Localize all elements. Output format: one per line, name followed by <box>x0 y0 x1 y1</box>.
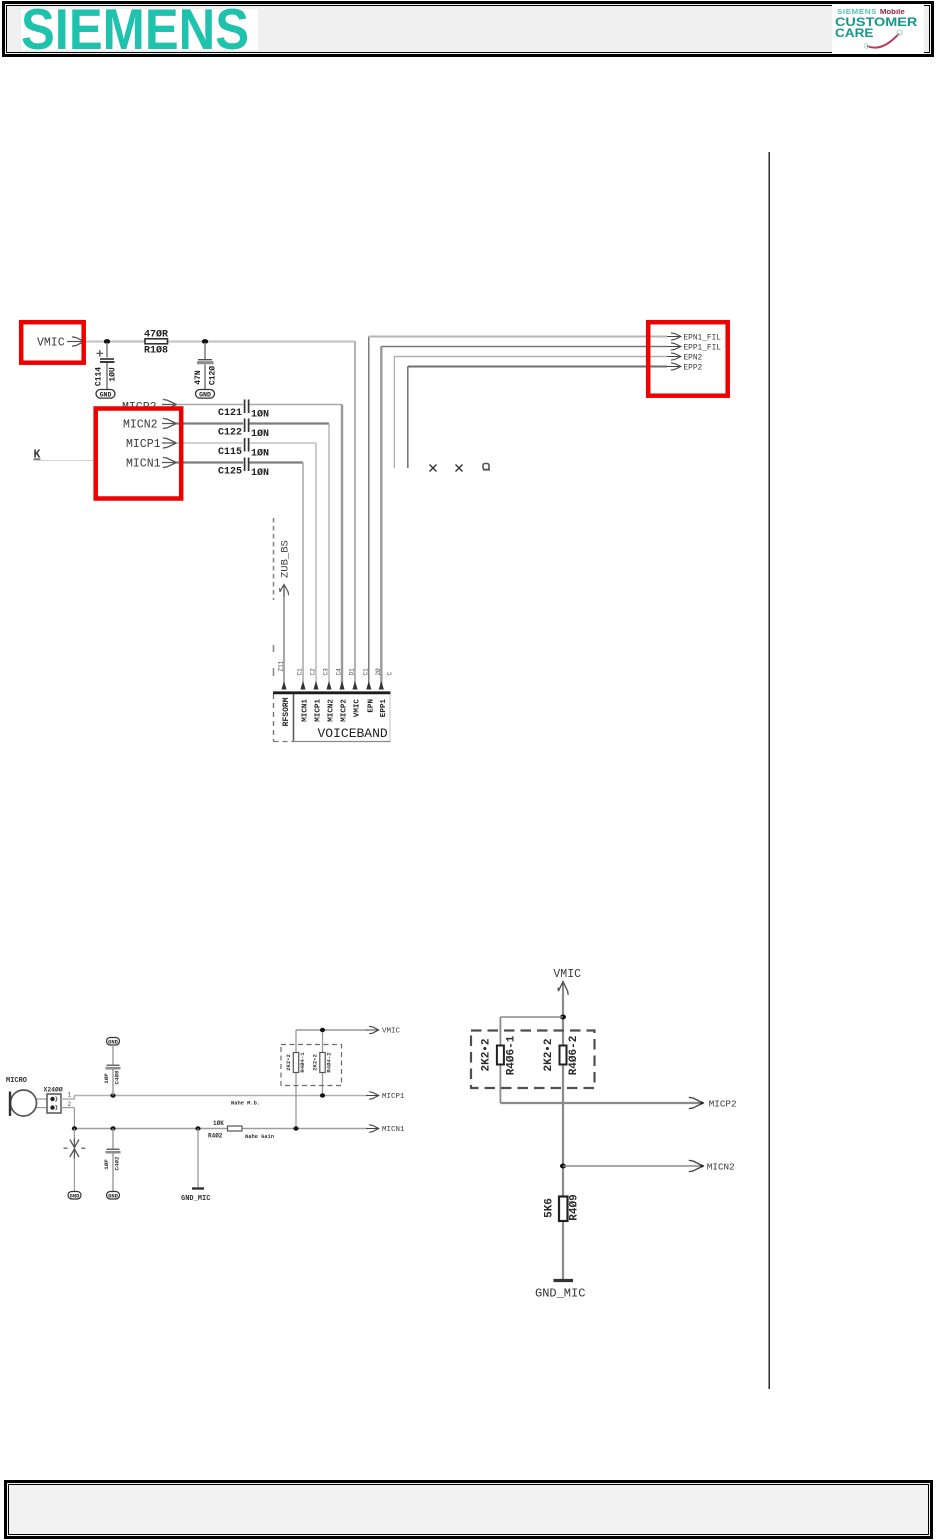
ground GND (C408 top) <box>107 1038 120 1046</box>
no-connect mark 3 <box>483 464 490 470</box>
svg-text:Z11: Z11 <box>278 660 285 671</box>
footer bar <box>4 1480 933 1539</box>
highlight red box VMIC <box>21 322 83 363</box>
svg-text:C3: C3 <box>323 668 330 676</box>
node junction VMIC/R404-2 <box>320 1028 325 1032</box>
suppressor Z400 <box>64 1129 86 1192</box>
node junction C402 <box>110 1126 115 1130</box>
wire MICP2 row (divider) <box>500 1102 701 1104</box>
svg-text:C121: C121 <box>218 408 242 419</box>
node ZUB_BS (port arrow up) <box>279 540 291 687</box>
node VMIC (input port) <box>37 336 85 349</box>
pin C partial at box edge <box>387 672 394 676</box>
svg-text:5K6: 5K6 <box>544 1198 556 1218</box>
wire MICN1 row (bottom circuit) <box>61 1108 367 1129</box>
svg-text:2Ø: 2Ø <box>375 668 382 676</box>
resistor R406-2 2K2*2 <box>543 1036 580 1076</box>
svg-text:R4Ø6-1: R4Ø6-1 <box>506 1035 518 1075</box>
svg-text:2K2•2: 2K2•2 <box>312 1053 319 1070</box>
wire mic to connector <box>37 1099 48 1108</box>
svg-text:C4Ø8: C4Ø8 <box>114 1070 121 1084</box>
node MICN2 (output port, divider) <box>689 1160 735 1172</box>
svg-text:R4Ø4-2: R4Ø4-2 <box>326 1052 333 1073</box>
svg-text:MICP1: MICP1 <box>382 1093 405 1101</box>
svg-text:GND: GND <box>108 1194 118 1200</box>
svg-text:EPN: EPN <box>367 699 375 713</box>
svg-text:1ØU: 1ØU <box>109 367 118 382</box>
svg-text:1ØN: 1ØN <box>251 467 269 479</box>
capacitor C122 1ØN <box>218 419 269 440</box>
svg-text:GND: GND <box>108 1040 118 1046</box>
svg-text:MICN1: MICN1 <box>302 699 310 722</box>
connector X24ØØ <box>44 1086 72 1114</box>
annotation Nahe M.b. <box>231 1101 260 1107</box>
svg-text:1ØN: 1ØN <box>251 408 269 420</box>
svg-text:C1: C1 <box>297 668 304 676</box>
wire EPP1_FIL <box>381 347 667 688</box>
node junction R404-2/MICP1 <box>320 1093 325 1097</box>
node EPP2 (output port) <box>667 363 703 373</box>
node junction R404-1/MICN1 <box>293 1126 298 1130</box>
care swoosh <box>867 34 899 48</box>
wire EPN1_FIL <box>369 337 667 688</box>
pin D1 VMIC <box>349 668 362 717</box>
svg-text:EPP1_FIL: EPP1_FIL <box>684 345 722 353</box>
svg-text:MICN1: MICN1 <box>382 1126 405 1134</box>
resistor pack dashed box R406 <box>471 1031 595 1089</box>
ground GND (Z400) <box>68 1192 81 1200</box>
svg-text:2K2•2: 2K2•2 <box>543 1038 555 1071</box>
svg-text:VMIC: VMIC <box>37 336 65 349</box>
svg-text:R4Ø9: R4Ø9 <box>569 1194 581 1220</box>
wire R404-1 branch vertical <box>295 1030 297 1129</box>
wire MICP2 row <box>177 405 343 688</box>
no-connect mark 1 <box>430 465 437 472</box>
no-connect mark 2 <box>456 465 463 472</box>
node junction VMIC branch <box>560 1015 566 1020</box>
svg-text:GND: GND <box>70 1194 80 1200</box>
node MICN1 (output port) <box>366 1125 405 1135</box>
svg-text:VMIC: VMIC <box>553 968 581 981</box>
highlight red box MIC inputs <box>96 409 182 499</box>
pin Z11 (ZUB_BS) arrowhead <box>278 660 287 689</box>
svg-text:2: 2 <box>68 1101 72 1108</box>
svg-text:2K2•2: 2K2•2 <box>481 1038 493 1071</box>
svg-text:D1: D1 <box>349 668 356 676</box>
svg-text:1ØK: 1ØK <box>213 1120 224 1127</box>
capacitor C402 1ØP <box>103 1129 121 1192</box>
svg-text:VMIC: VMIC <box>382 1028 401 1036</box>
svg-text:47N: 47N <box>194 370 203 385</box>
wire MICP1 row <box>177 443 317 687</box>
wire R404-2 branch vertical <box>322 1030 324 1096</box>
wire MICP1 row (bottom circuit) <box>61 1096 367 1100</box>
ground GND (C402) <box>107 1192 120 1200</box>
highlight red box EP outputs <box>648 322 728 396</box>
node MICP2 (output port, divider) <box>689 1097 737 1109</box>
capacitor C125 1ØN <box>218 458 269 479</box>
node junction GND_MIC tap <box>195 1126 200 1130</box>
svg-text:GND_MIC: GND_MIC <box>181 1195 210 1203</box>
microphone MICRO <box>6 1077 37 1116</box>
pin C4 MICP2 <box>336 668 349 722</box>
svg-text:C4Ø2: C4Ø2 <box>114 1156 121 1170</box>
capacitor C114 1ØU <box>95 343 118 390</box>
resistor R409 5K6 <box>544 1194 581 1221</box>
node junction at C114 <box>104 339 110 344</box>
svg-text:R4Ø6-2: R4Ø6-2 <box>568 1036 580 1076</box>
node MICP1 (output port) <box>366 1092 405 1102</box>
svg-text:C12Ø: C12Ø <box>209 366 218 385</box>
wire VMIC (bottom-left) <box>296 1029 367 1031</box>
node EPN2 (output port) <box>667 353 703 363</box>
resistor R108 47ØR <box>110 329 168 357</box>
node MICP2 (input port) <box>122 399 177 414</box>
node MICN2 (input port) <box>123 418 177 431</box>
pin C2 MICP1 <box>310 668 323 722</box>
svg-text:1: 1 <box>68 1092 72 1099</box>
vertical page divider line <box>768 152 770 1389</box>
wire EPP2 <box>408 367 667 469</box>
svg-text:EPN1_FIL: EPN1_FIL <box>684 335 722 343</box>
svg-text:Nahe M.b.: Nahe M.b. <box>231 1101 260 1107</box>
svg-text:GND: GND <box>100 392 112 399</box>
svg-text:C114: C114 <box>95 367 104 386</box>
pin C1 MICN1 <box>297 668 310 722</box>
svg-text:MICN2: MICN2 <box>707 1161 735 1172</box>
wire EPN2 <box>394 357 667 469</box>
node VMIC (power arrow, bottom-right) <box>553 968 581 995</box>
svg-text:MICN2: MICN2 <box>328 699 336 722</box>
wire MICN2 row (divider) <box>563 1165 701 1167</box>
ground GND (C114) <box>96 390 115 399</box>
header bar <box>2 1 934 57</box>
wire MICN2 row <box>177 424 330 688</box>
capacitor C120 47N <box>194 343 218 390</box>
svg-text:2K2•2: 2K2•2 <box>285 1053 292 1070</box>
svg-text:RFSORM: RFSORM <box>282 697 291 726</box>
svg-text:MICP2: MICP2 <box>709 1098 737 1109</box>
resistor pack dashed box R404 <box>281 1045 342 1086</box>
svg-text:X24ØØ: X24ØØ <box>44 1086 63 1094</box>
pin D2 EPP1 <box>375 668 388 717</box>
svg-text:EPN2: EPN2 <box>684 355 703 363</box>
svg-text:MICN1: MICN1 <box>126 457 161 470</box>
customer care logo <box>832 4 924 54</box>
ground GND (C120) <box>196 390 215 399</box>
svg-text:GND_MIC: GND_MIC <box>535 1287 585 1301</box>
svg-text:Nahe Gain: Nahe Gain <box>245 1134 274 1140</box>
resistor R404-2 2K2*2 <box>312 1052 333 1073</box>
wire clipped dashed label column <box>273 518 275 676</box>
svg-text:GND: GND <box>199 392 211 399</box>
svg-text:R4Ø2: R4Ø2 <box>208 1133 223 1140</box>
svg-text:47ØR: 47ØR <box>144 329 168 341</box>
node junction MICN2 <box>560 1164 566 1169</box>
wire branch to R406-1 <box>500 1017 563 1103</box>
node MICN1 (input port) <box>126 457 177 470</box>
svg-text:VOICEBAND: VOICEBAND <box>318 726 388 741</box>
svg-text:MICP1: MICP1 <box>315 699 323 722</box>
svg-text:C122: C122 <box>218 427 242 438</box>
node junction C408/MICP1 <box>110 1093 115 1097</box>
node K <box>33 449 97 462</box>
svg-text:1ØP: 1ØP <box>103 1073 110 1084</box>
node junction Z400 <box>72 1126 77 1130</box>
node EPN1_FIL (output port) <box>667 333 721 343</box>
ground GND_MIC (bottom-left) <box>181 1129 210 1204</box>
svg-text:C1: C1 <box>362 668 369 676</box>
svg-text:EPP1: EPP1 <box>380 699 388 718</box>
resistor R406-1 2K2*2 <box>481 1035 518 1075</box>
svg-text:ZUB_BS: ZUB_BS <box>280 540 292 578</box>
node VMIC (output port, bottom-left) <box>366 1026 401 1036</box>
svg-text:C: C <box>387 672 394 676</box>
wire VMIC vertical (divider) <box>562 992 564 1280</box>
capacitor C408 1ØP <box>103 1045 121 1096</box>
capacitor C115 1ØN <box>218 438 269 459</box>
svg-text:R1Ø8: R1Ø8 <box>144 345 168 357</box>
svg-text:K: K <box>34 449 41 462</box>
svg-text:MICP1: MICP1 <box>126 438 161 451</box>
node EPP1_FIL (output port) <box>667 343 721 353</box>
resistor R404-1 2K2*2 <box>285 1052 306 1073</box>
node MICP1 (input port) <box>126 438 177 451</box>
resistor R402 1ØK <box>208 1120 242 1140</box>
svg-text:C2: C2 <box>310 668 317 676</box>
pin C3 MICN2 <box>323 668 336 722</box>
pin C1 EPN <box>362 668 375 713</box>
node junction at C120 <box>202 339 208 344</box>
svg-text:MICRO: MICRO <box>6 1077 27 1085</box>
annotation Nahe Gain <box>245 1134 274 1140</box>
wire VMIC horizontal <box>82 340 355 342</box>
svg-text:VMIC: VMIC <box>354 699 362 718</box>
wire MICN1 row <box>177 463 304 688</box>
svg-text:C4: C4 <box>336 668 343 676</box>
IC U1 VOICEBAND body <box>273 693 391 742</box>
svg-text:C115: C115 <box>218 447 242 458</box>
IC U1 left partial block RFSORM <box>274 694 294 742</box>
svg-text:C125: C125 <box>218 466 242 477</box>
svg-text:1ØN: 1ØN <box>251 428 269 440</box>
ground GND_MIC (divider) <box>535 1281 585 1301</box>
capacitor C121 1ØN <box>218 400 269 421</box>
svg-text:MICP2: MICP2 <box>341 699 349 722</box>
svg-text:1ØN: 1ØN <box>251 447 269 459</box>
svg-text:EPP2: EPP2 <box>684 365 703 373</box>
svg-text:1ØP: 1ØP <box>103 1159 110 1170</box>
SIEMENS logotype <box>21 9 258 50</box>
svg-text:R4Ø4-1: R4Ø4-1 <box>299 1052 306 1073</box>
svg-text:MICN2: MICN2 <box>123 418 158 431</box>
wire VMIC vertical to chip <box>354 342 356 688</box>
